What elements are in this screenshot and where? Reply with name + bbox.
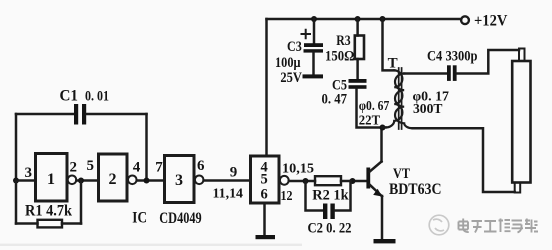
transistor VT emitter stroke with arrow xyxy=(370,185,382,197)
ground bar below C3 xyxy=(303,74,324,78)
resistor R2 xyxy=(315,176,341,185)
svg-text:22T: 22T xyxy=(359,114,381,129)
wire primary bottom xyxy=(383,126,386,129)
svg-text:1: 1 xyxy=(47,171,55,188)
svg-text:C2 0. 22: C2 0. 22 xyxy=(308,221,352,237)
wire gate2 out to gate3 in xyxy=(137,179,164,182)
watermark text dianzi gongcheng zhuanji xyxy=(459,219,539,233)
wire R3 to C5 xyxy=(356,59,359,79)
wire R1 bottom right lead xyxy=(62,222,81,225)
svg-text:C1: C1 xyxy=(60,88,79,105)
svg-text:R3: R3 xyxy=(336,33,350,49)
svg-text:300T: 300T xyxy=(413,102,443,117)
wire R1 bottom left lead xyxy=(16,222,38,225)
inverter gate 2 xyxy=(99,154,128,201)
wire C3 bottom lead xyxy=(312,53,315,75)
wire C1 right vertical xyxy=(145,114,148,181)
wire C1 top right segment xyxy=(87,113,147,116)
lamp tube top pin xyxy=(519,49,525,62)
terminal +12V xyxy=(461,16,469,24)
wire R3 top lead xyxy=(356,19,359,36)
wire bubble to R2 xyxy=(289,180,315,183)
polarity plus of C3 xyxy=(302,30,311,39)
svg-text:5: 5 xyxy=(261,172,268,188)
svg-text:C3: C3 xyxy=(287,39,302,55)
node R2 left junction xyxy=(303,178,309,184)
svg-text:9: 9 xyxy=(230,165,238,181)
svg-text:+12V: +12V xyxy=(474,13,508,30)
svg-text:12: 12 xyxy=(281,189,293,204)
svg-text:CD4049: CD4049 xyxy=(159,210,202,227)
wire R2 right lead xyxy=(341,180,366,183)
wire +12V top rail xyxy=(267,18,462,21)
resistor R3 xyxy=(355,36,364,60)
node gate1 input junction xyxy=(13,178,19,184)
svg-text:25V: 25V xyxy=(280,70,302,86)
label C1 xyxy=(25,13,509,237)
node R1 top junction xyxy=(78,178,84,184)
wire R1 right vertical xyxy=(80,181,83,224)
svg-text:C4 3300p: C4 3300p xyxy=(427,49,478,65)
svg-text:6: 6 xyxy=(197,158,205,174)
output bubble gate 3 xyxy=(195,176,204,185)
svg-text:3: 3 xyxy=(175,172,183,189)
svg-text:0. 47: 0. 47 xyxy=(322,92,348,108)
lamp tube body xyxy=(512,61,530,183)
wire C4 to lamp top xyxy=(457,50,519,74)
svg-text:T: T xyxy=(388,56,398,72)
svg-text:5: 5 xyxy=(87,158,95,174)
svg-text:BDT63C: BDT63C xyxy=(389,181,442,198)
scan artifact band xyxy=(0,244,302,246)
node C1 right junction xyxy=(144,178,150,184)
buffer box gates 4 5 6 xyxy=(251,156,280,203)
output bubble of buffer box xyxy=(280,176,289,185)
lamp tube bottom pin xyxy=(515,183,521,193)
svg-text:2: 2 xyxy=(70,160,78,176)
inverter gate 1 xyxy=(36,154,68,202)
capacitor C2 xyxy=(323,204,335,220)
node rail transformer xyxy=(380,16,386,22)
svg-text:7: 7 xyxy=(155,160,163,176)
svg-text:3: 3 xyxy=(25,165,33,181)
wire gate1 out to gate2 in xyxy=(76,179,98,182)
wire C5 bottom to collector node xyxy=(357,89,383,128)
wire secondary bottom to lamp bottom xyxy=(413,128,515,192)
capacitor C3 plates xyxy=(304,43,324,52)
node rail R3 xyxy=(355,16,361,22)
wire R1 left vertical xyxy=(15,181,18,224)
wire input to gate 1 xyxy=(16,179,35,182)
wire C1 feedback loop left vertical xyxy=(15,114,18,181)
svg-text:10,15: 10,15 xyxy=(282,162,314,177)
svg-text:IC: IC xyxy=(132,210,147,227)
wire VCC vertical from +12V rail to box top xyxy=(265,19,268,156)
wire rail to primary top xyxy=(383,19,395,70)
transformer core lines xyxy=(399,68,402,129)
capacitor C1 xyxy=(74,104,86,125)
svg-text:4: 4 xyxy=(133,160,141,176)
transistor VT base bar xyxy=(366,168,370,189)
wire C3 top lead xyxy=(313,19,316,43)
svg-text:R2 1k: R2 1k xyxy=(312,188,349,204)
node rail C3 xyxy=(311,16,317,22)
inverter gate 3 xyxy=(165,156,195,203)
wire emitter vertical xyxy=(381,196,384,240)
output bubble gate 2 xyxy=(128,176,137,185)
transistor VT collector stroke xyxy=(370,162,382,172)
svg-text:2: 2 xyxy=(109,171,117,188)
node R2 right junction xyxy=(350,178,356,184)
wire secondary top to C4 xyxy=(404,72,447,75)
svg-text:0. 01: 0. 01 xyxy=(85,89,109,105)
node collector transformer junction xyxy=(380,125,386,131)
wire C1 top left segment xyxy=(16,113,75,116)
wire gate3 out to buffer box pins 9,11,14 xyxy=(204,179,250,182)
ground bar below box (pin 8) xyxy=(256,235,276,239)
capacitor C4 xyxy=(447,65,457,81)
wire C2 right vertical xyxy=(335,181,351,211)
wire C2 left vertical xyxy=(306,181,324,211)
output bubble gate 1 xyxy=(68,176,77,185)
resistor R1 xyxy=(38,220,63,228)
svg-text:VT: VT xyxy=(393,166,410,182)
svg-text:150Ω: 150Ω xyxy=(325,49,354,65)
capacitor C5 plates xyxy=(349,79,367,89)
svg-text:100μ: 100μ xyxy=(275,55,301,71)
svg-text:R1 4.7k: R1 4.7k xyxy=(25,203,72,220)
watermark logo xyxy=(429,215,449,235)
svg-text:φ0. 67: φ0. 67 xyxy=(359,99,390,114)
svg-text:11,14: 11,14 xyxy=(213,187,244,202)
ground bar at emitter xyxy=(374,239,396,243)
wire collector vertical xyxy=(380,128,383,162)
transformer T secondary winding 300T xyxy=(395,74,413,129)
wire box bottom to ground xyxy=(263,203,266,236)
transformer T primary winding 22T xyxy=(386,70,403,127)
svg-text:6: 6 xyxy=(261,187,268,203)
